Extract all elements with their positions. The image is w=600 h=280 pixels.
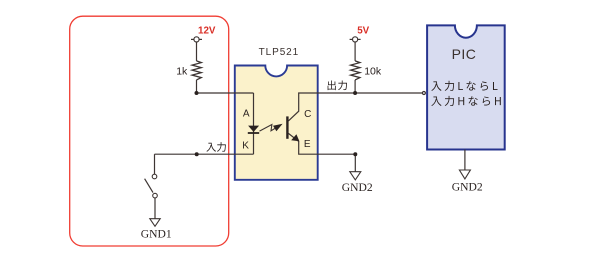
svg-text:A: A: [243, 109, 250, 120]
svg-text:10k: 10k: [364, 65, 382, 77]
svg-text:GND1: GND1: [141, 227, 172, 240]
svg-text:GND2: GND2: [452, 181, 483, 194]
svg-text:PIC: PIC: [452, 46, 477, 62]
svg-text:C: C: [304, 109, 311, 120]
svg-text:5V: 5V: [357, 25, 369, 36]
svg-text:12V: 12V: [198, 26, 216, 37]
svg-text:K: K: [242, 141, 249, 152]
svg-text:TLP521: TLP521: [259, 47, 299, 58]
svg-text:GND2: GND2: [342, 181, 373, 194]
svg-text:E: E: [304, 139, 311, 150]
svg-text:1k: 1k: [176, 66, 188, 78]
